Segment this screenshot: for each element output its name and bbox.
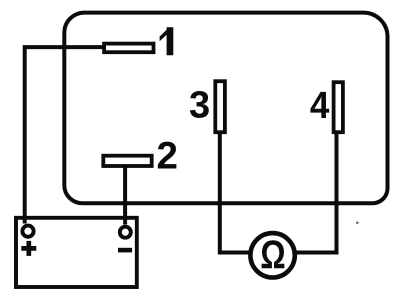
- wire: terminal 2 down to battery -: [123, 166, 127, 225]
- battery minus sign: [118, 248, 132, 253]
- pin label 4: [310, 92, 329, 118]
- terminal 1 (pin 1 blade): [104, 44, 153, 53]
- pin label 1: [160, 27, 174, 55]
- speck artifact: [356, 222, 358, 224]
- relay body outline U1: [64, 13, 387, 204]
- battery positive terminal post: [22, 226, 33, 237]
- ohmmeter M1 body: [250, 233, 294, 277]
- pin label 2: [158, 142, 177, 169]
- battery BT1 case: [16, 218, 137, 287]
- battery plus sign: [21, 241, 36, 256]
- terminal 3 (pin 3 blade): [215, 81, 225, 132]
- wire: terminal 3 down to ohmmeter left: [220, 132, 250, 253]
- battery negative terminal post: [120, 227, 131, 238]
- wire: terminal 4 down to ohmmeter right: [295, 132, 337, 253]
- terminal 4 (pin 4 blade): [334, 82, 343, 132]
- terminal 2 (pin 2 blade): [103, 156, 151, 166]
- pin label 3: [190, 91, 209, 118]
- ohmmeter omega symbol: [262, 240, 285, 268]
- wire: terminal 1 to battery + (left run): [25, 47, 103, 223]
